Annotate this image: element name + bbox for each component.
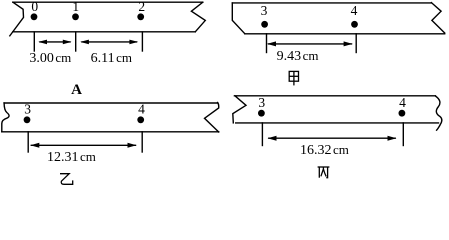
svg-text:3: 3 [258,95,265,110]
svg-text:6.11cm: 6.11cm [91,50,132,66]
svg-text:3.00cm: 3.00cm [29,50,71,66]
svg-text:2: 2 [138,0,145,14]
svg-text:16.32cm: 16.32cm [300,142,349,158]
svg-text:4: 4 [351,3,358,18]
svg-text:4: 4 [399,95,406,110]
svg-text:3: 3 [261,3,268,18]
svg-text:4: 4 [138,101,145,116]
svg-text:3: 3 [24,101,31,116]
svg-text:12.31cm: 12.31cm [47,149,96,165]
svg-text:1: 1 [72,0,79,14]
svg-text:A: A [71,82,82,98]
svg-text:0: 0 [31,0,38,14]
svg-text:9.43cm: 9.43cm [277,48,319,64]
